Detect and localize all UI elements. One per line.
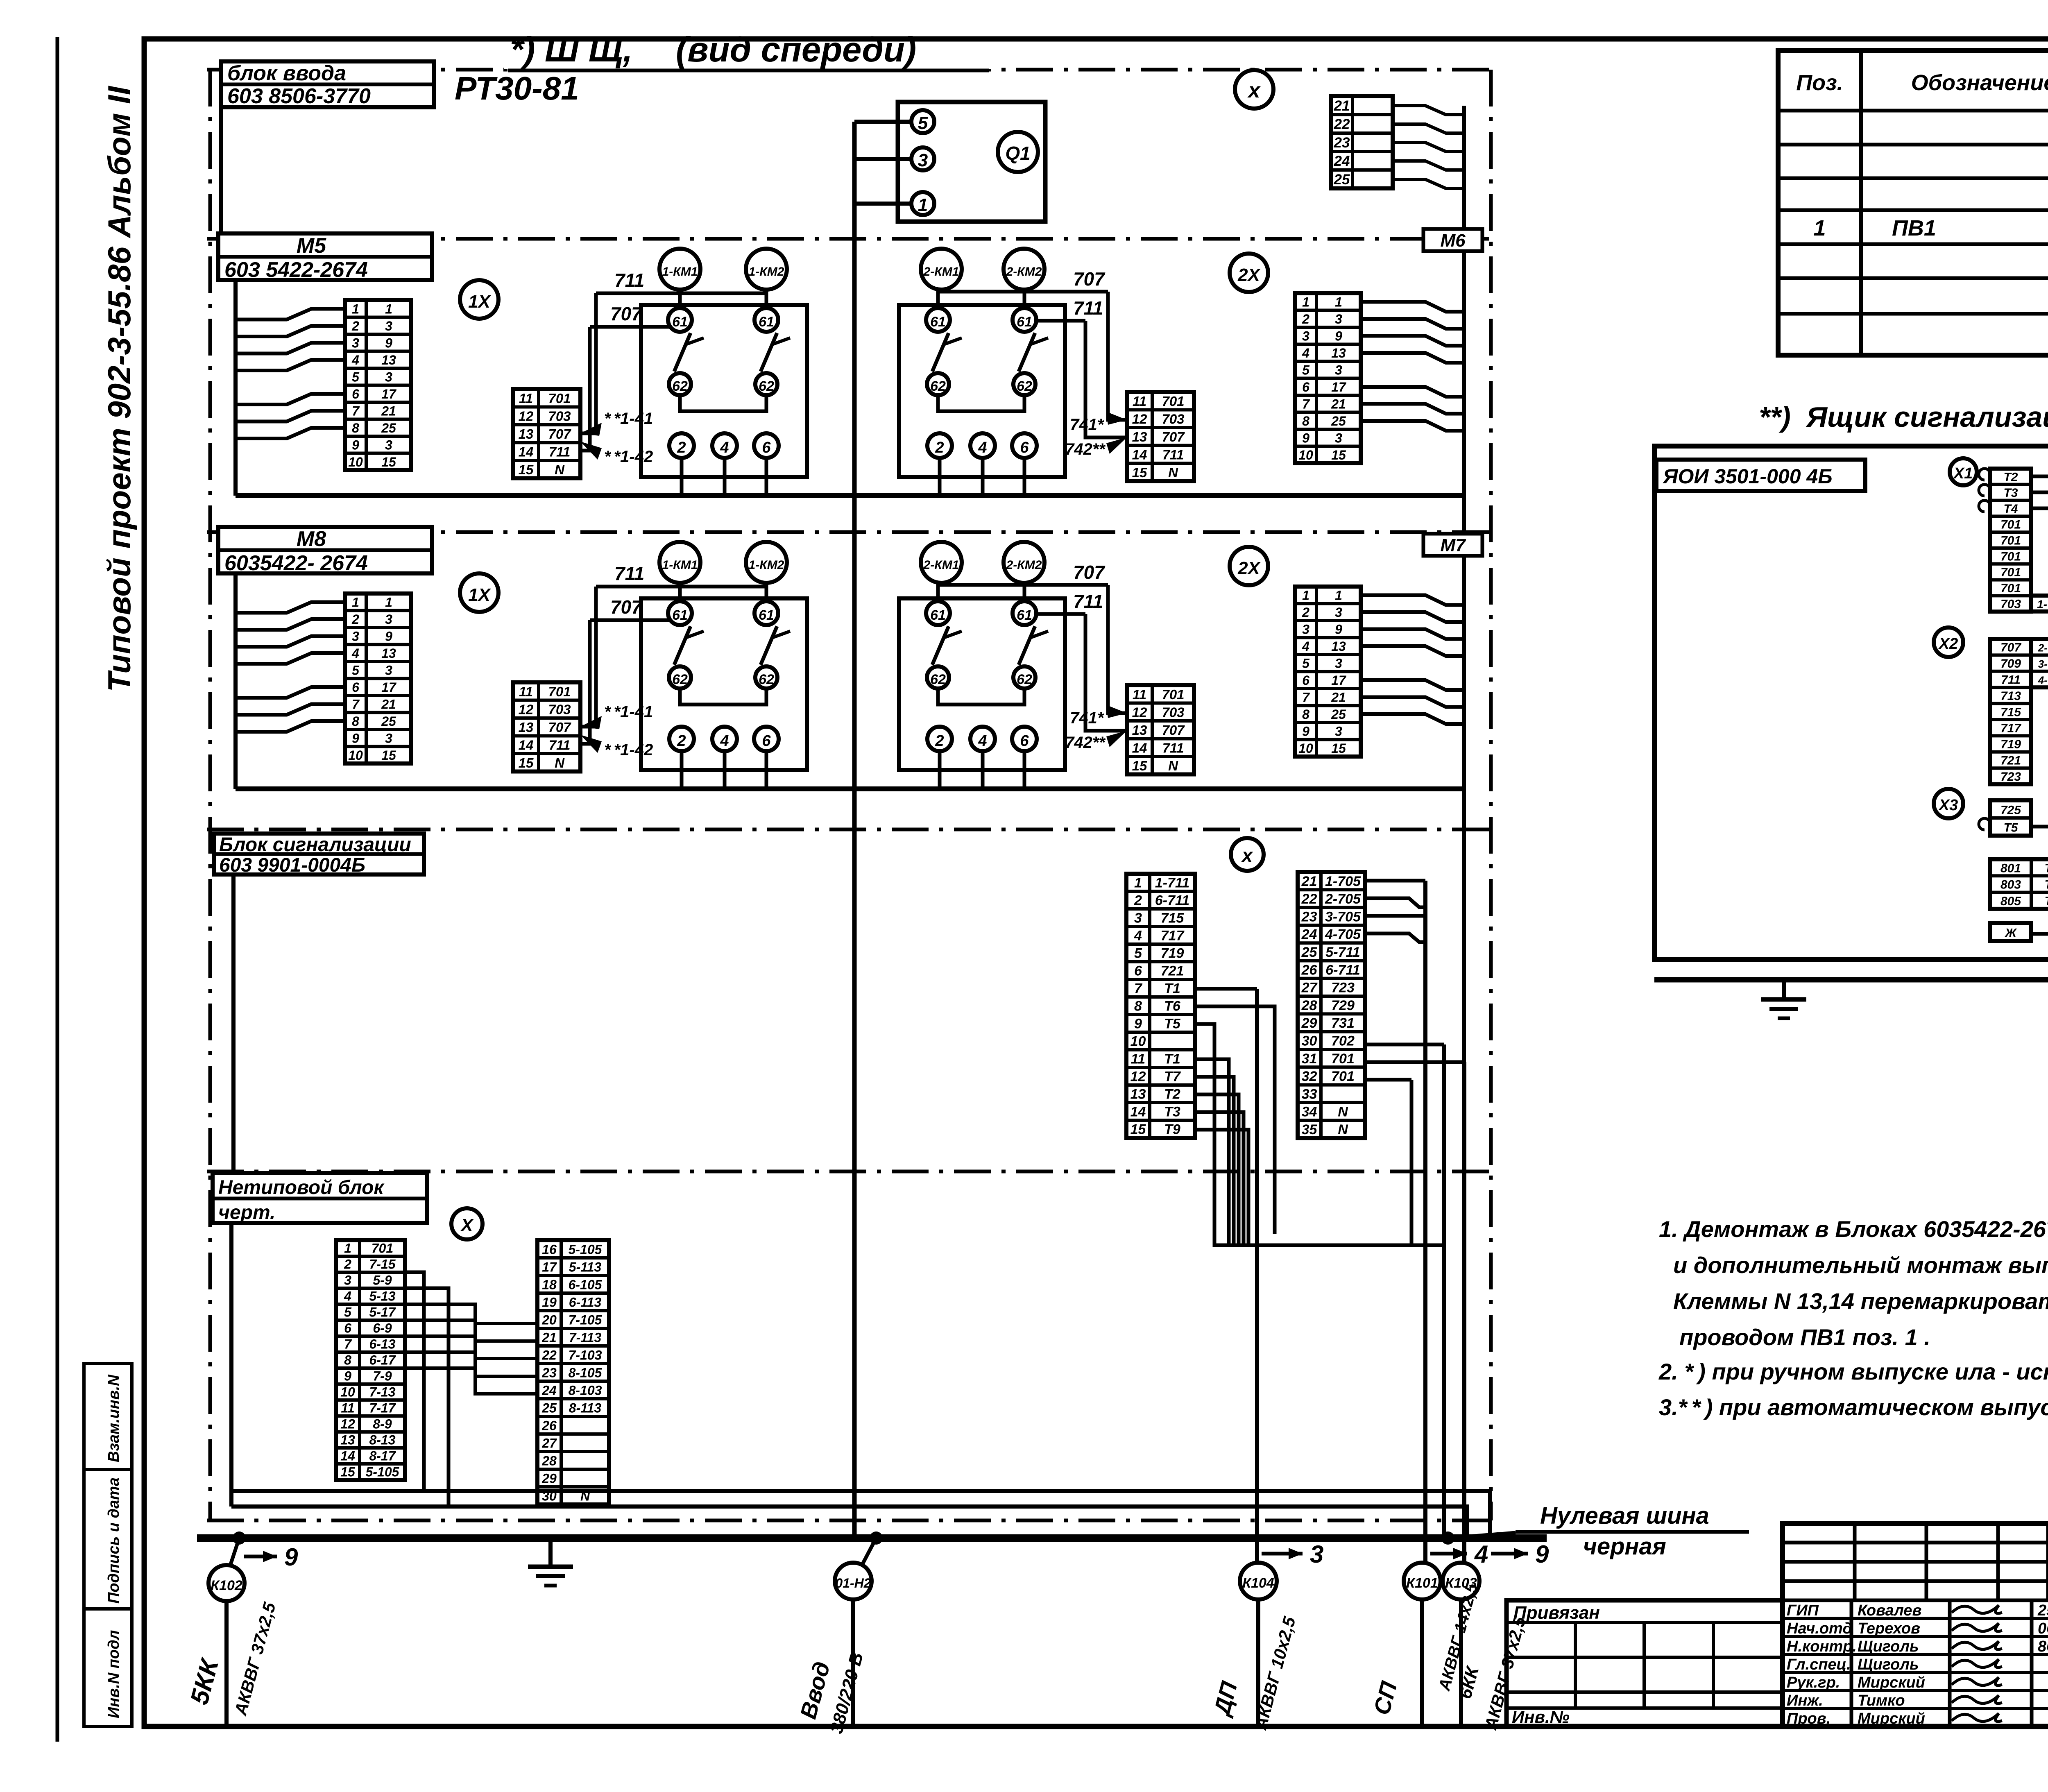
svg-text:62: 62 [930, 672, 946, 687]
terminal 6 2K М5 [1012, 433, 1037, 458]
svg-text:Т7: Т7 [2044, 895, 2048, 908]
svg-text:35: 35 [1302, 1122, 1318, 1137]
label box М5 603 5422-2674 [218, 233, 432, 280]
svg-text:18: 18 [542, 1278, 557, 1292]
svg-text:61: 61 [672, 607, 688, 623]
svg-text:Нач.отд: Нач.отд [1787, 1620, 1852, 1637]
svg-text:701: 701 [548, 391, 571, 406]
wire fan from table 21-25 [1393, 106, 1464, 115]
svg-text:29: 29 [541, 1471, 557, 1486]
svg-text:12: 12 [340, 1416, 355, 1431]
svg-text:1. Демонтаж в Блоках 603542: 1. Демонтаж в Блоках 6035422-2674, показ… [1659, 1216, 2048, 1242]
panel boundary dash-dot left [208, 70, 212, 1520]
svg-text:N: N [1168, 758, 1178, 773]
svg-text:717: 717 [2000, 722, 2021, 735]
svg-text:1X: 1X [468, 585, 491, 605]
svg-text:707: 707 [610, 596, 643, 618]
svg-text:23: 23 [1334, 135, 1350, 151]
svg-text:N: N [1168, 465, 1178, 480]
svg-text:x: x [1247, 79, 1261, 102]
svg-text:14: 14 [1132, 447, 1147, 462]
svg-text:17: 17 [1331, 673, 1347, 688]
svg-text:1: 1 [385, 595, 392, 609]
svg-text:14: 14 [519, 737, 534, 752]
svg-text:2: 2 [677, 732, 686, 750]
svg-text:3: 3 [385, 612, 392, 627]
svg-text:5: 5 [352, 369, 360, 384]
svg-text:701: 701 [1331, 1051, 1355, 1067]
svg-text:703: 703 [1162, 705, 1184, 720]
margin stamp box Инв.N подл [84, 1609, 132, 1726]
connector circle Х2 [1934, 628, 1963, 657]
svg-text:Х1: Х1 [1953, 465, 1973, 482]
svg-text:711: 711 [1162, 447, 1184, 462]
svg-text:9: 9 [1335, 328, 1342, 343]
svg-text:Т2: Т2 [2003, 470, 2018, 484]
contact 62 [669, 373, 691, 395]
svg-text:731: 731 [1331, 1015, 1355, 1031]
svg-text:25: 25 [541, 1401, 557, 1416]
terminal 6 1K М8 [754, 727, 779, 751]
svg-text:6-9: 6-9 [373, 1321, 392, 1335]
svg-text:12: 12 [519, 702, 534, 717]
svg-text:61: 61 [1017, 607, 1032, 623]
svg-text:7-17: 7-17 [369, 1400, 396, 1415]
svg-text:13: 13 [1331, 346, 1346, 360]
cable К101 drop wire [1420, 1599, 1424, 1726]
svg-text:6-105: 6-105 [569, 1278, 603, 1292]
wire riser to 13 1K М8 [580, 587, 596, 727]
svg-text:28: 28 [1301, 998, 1317, 1013]
svg-text:2-КМ2: 2-КМ2 [1006, 558, 1042, 572]
svg-text:8: 8 [352, 421, 359, 435]
svg-text:3: 3 [1335, 312, 1342, 326]
svg-text:701: 701 [2000, 534, 2021, 547]
svg-text:1: 1 [1134, 875, 1142, 891]
svg-text:719: 719 [1161, 946, 1184, 961]
svg-text:4: 4 [1134, 928, 1142, 944]
svg-text:6: 6 [762, 732, 771, 750]
svg-text:* *1-42: * *1-42 [604, 741, 653, 759]
svg-text:707: 707 [1073, 268, 1106, 290]
svg-text:717: 717 [1161, 928, 1185, 944]
svg-text:Т9: Т9 [1164, 1122, 1180, 1137]
tab М6 [1423, 229, 1482, 251]
sheet outer left edge line [56, 37, 59, 1742]
contact 61 [754, 601, 778, 625]
svg-text:1X: 1X [468, 292, 491, 312]
tab М7 [1423, 534, 1482, 556]
svg-text:9: 9 [1302, 724, 1309, 739]
svg-text:3: 3 [1310, 1541, 1323, 1568]
terminal 6 1K М5 [754, 433, 779, 458]
svg-text:711: 711 [1162, 740, 1184, 755]
contactor box 1K М5 [641, 305, 807, 477]
svg-text:Q1: Q1 [1005, 143, 1030, 164]
svg-text:702: 702 [1331, 1033, 1355, 1049]
svg-text:6: 6 [352, 387, 359, 401]
terminal 4 2K М8 [970, 727, 995, 751]
svg-text:2: 2 [1302, 605, 1309, 620]
svg-text:Х3: Х3 [1938, 797, 1958, 814]
svg-text:603 8506-3770: 603 8506-3770 [227, 84, 371, 108]
svg-text:5: 5 [344, 1305, 352, 1319]
svg-text:725: 725 [2000, 804, 2021, 817]
svg-text:61: 61 [930, 314, 946, 330]
wire 711 1K М8 [596, 585, 766, 589]
svg-text:7-15: 7-15 [369, 1257, 396, 1271]
contact 62 [927, 666, 949, 689]
svg-text:13: 13 [381, 353, 396, 367]
wire 707 2K М5 [938, 290, 1108, 294]
svg-text:7: 7 [344, 1337, 352, 1351]
svg-text:15: 15 [1331, 448, 1346, 462]
wire non-typical cross 4 [405, 1352, 537, 1376]
svg-text:13: 13 [1132, 723, 1147, 738]
svg-text:4: 4 [978, 439, 987, 456]
svg-text:Щиголь: Щиголь [1858, 1638, 1919, 1655]
svg-text:9: 9 [1535, 1541, 1549, 1568]
svg-text:24: 24 [1301, 927, 1317, 942]
svg-text:М6: М6 [1440, 231, 1466, 251]
svg-text:713: 713 [2000, 689, 2021, 703]
panel boundary dash-dot bottom [207, 1519, 1491, 1522]
block М5 bottom bus wire [236, 493, 1464, 498]
svg-text:2. * ) при ручном выпуске ил: 2. * ) при ручном выпуске ила - исключит… [1658, 1359, 2048, 1384]
svg-text:62: 62 [672, 672, 688, 687]
svg-text:8-17: 8-17 [369, 1448, 396, 1463]
wire 62 link 1K М8 [680, 689, 766, 705]
svg-text:М5: М5 [297, 234, 326, 258]
svg-text:701: 701 [1162, 687, 1184, 702]
svg-text:707: 707 [548, 720, 571, 735]
terminal 2 1K М8 [669, 727, 694, 751]
svg-text:6: 6 [352, 680, 359, 695]
svg-text:25: 25 [1334, 172, 1350, 188]
terminal 2 2K М5 [927, 433, 952, 458]
svg-text:711: 711 [549, 737, 571, 752]
svg-text:7: 7 [352, 697, 360, 711]
wire signal L7 to К104 riser [1195, 987, 1257, 991]
svg-text:25.: 25. [2037, 1602, 2048, 1619]
svg-text:21: 21 [381, 403, 396, 418]
svg-text:13: 13 [381, 646, 396, 661]
svg-text:62: 62 [759, 378, 774, 394]
svg-text:17: 17 [542, 1260, 557, 1275]
terminal table М8 small 2K [1127, 685, 1194, 775]
terminal 4 1K М5 [712, 433, 737, 458]
svg-text:(вид спереди): (вид спереди) [676, 30, 916, 69]
wire К101 riser [1423, 881, 1427, 1579]
svg-text:Ящик сигнализации ЯС (вид спе: Ящик сигнализации ЯС (вид спереди) [1806, 401, 2048, 433]
ЯС ground bus line [1654, 977, 2048, 983]
wire Х3 Т5 [2031, 827, 2048, 980]
contactor circle 2-КМ2 М8 [1004, 542, 1044, 583]
non-typical block left edge wire [229, 1223, 233, 1507]
cable fan М5 left [236, 309, 345, 319]
wire riser 3446 [1410, 1080, 1414, 1245]
svg-text:2-КМ1: 2-КМ1 [923, 265, 959, 279]
svg-text:741*: 741* [1070, 416, 1105, 434]
svg-text:801: 801 [2000, 861, 2021, 875]
svg-text:62: 62 [930, 378, 946, 394]
contact 62 [1013, 373, 1035, 395]
svg-text:3: 3 [1335, 724, 1342, 739]
svg-text:3: 3 [918, 150, 928, 170]
svg-text:7-105: 7-105 [569, 1313, 603, 1328]
terminal 5 of Q1 [911, 110, 934, 133]
svg-text:711: 711 [1073, 591, 1103, 612]
svg-text:Подпись и дата: Подпись и дата [105, 1477, 122, 1604]
svg-text:62: 62 [672, 378, 688, 394]
svg-text:25: 25 [381, 421, 396, 435]
wire non-typical bottom 2 [231, 1507, 1467, 1538]
wire КМ2 drop 2K М5 [1023, 290, 1026, 308]
wire non-typical jumper 2 [405, 1288, 449, 1507]
svg-text:7: 7 [1302, 396, 1310, 411]
svg-text:711: 711 [614, 270, 644, 291]
svg-text:3: 3 [385, 437, 392, 452]
terminal table М5 left [345, 300, 411, 470]
wire КМ2 drop 2K М8 [1023, 583, 1026, 601]
svg-text:29: 29 [1301, 1015, 1317, 1031]
connector circle X signal block [1231, 838, 1264, 871]
wire non-typical cross 1 [405, 1304, 537, 1323]
label box Блок сигнализации 603 9901-0004Б [214, 834, 424, 874]
junction dot right [1441, 1531, 1454, 1545]
svg-text:33: 33 [1302, 1086, 1317, 1102]
svg-text:86: 86 [2038, 1638, 2048, 1655]
title *) Ш Щ (вид спереди) [504, 44, 991, 69]
svg-text:701: 701 [1162, 394, 1184, 409]
svg-text:742**: 742** [1065, 440, 1106, 458]
svg-text:Взам.инв.N: Взам.инв.N [105, 1374, 122, 1462]
svg-text:Гл.спец.: Гл.спец. [1787, 1656, 1851, 1673]
block М8 bottom bus wire [236, 786, 1464, 791]
svg-text:9: 9 [1134, 1016, 1142, 1032]
contact blade [1019, 333, 1035, 372]
svg-text:6: 6 [1020, 732, 1029, 750]
svg-text:Поз.: Поз. [1796, 70, 1843, 95]
contactor box 1K М8 [641, 598, 807, 770]
block М8 left edge wire [233, 573, 238, 789]
svg-text:X: X [460, 1215, 474, 1235]
svg-text:3: 3 [1302, 328, 1309, 343]
svg-text:3: 3 [1335, 362, 1342, 377]
svg-text:Ковалев: Ковалев [1858, 1602, 1921, 1619]
svg-text:2X: 2X [1237, 558, 1261, 578]
contactor circle 2-КМ1 М8 [921, 542, 962, 583]
device circle Q1 [998, 132, 1038, 172]
wire 711 2K М8 [1036, 612, 1085, 616]
svg-text:21: 21 [1331, 396, 1346, 411]
svg-text:9: 9 [1302, 430, 1309, 445]
svg-text:ЯОИ 3501-000 4Б: ЯОИ 3501-000 4Б [1662, 465, 1833, 488]
svg-text:15: 15 [340, 1464, 356, 1479]
svg-text:К101: К101 [1406, 1575, 1438, 1591]
svg-text:Типовой проект 902-3-55.86: Типовой проект 902-3-55.86 Альбом II [101, 86, 137, 692]
connector circle Х3 [1934, 789, 1963, 818]
svg-text:16: 16 [542, 1242, 557, 1257]
svg-text:62: 62 [1017, 672, 1032, 687]
wire Х1 r3 [2031, 508, 2048, 980]
wire signal R32 [1365, 1078, 1411, 1082]
svg-text:711: 711 [2001, 673, 2021, 687]
svg-text:5: 5 [352, 663, 360, 677]
svg-text:Т6: Т6 [1164, 999, 1181, 1014]
svg-text:13: 13 [340, 1432, 355, 1447]
svg-text:11: 11 [341, 1400, 354, 1415]
terminal table X 21-25 [1331, 96, 1393, 188]
svg-text:8: 8 [1302, 414, 1309, 428]
svg-text:5: 5 [1302, 656, 1310, 671]
svg-text:715: 715 [1161, 911, 1185, 926]
wire drops 2-4-6 1K М5 [680, 458, 684, 496]
svg-text:711: 711 [1073, 297, 1103, 319]
terminal table signal left 1-15 [1126, 874, 1195, 1138]
svg-text:11: 11 [519, 684, 533, 699]
staff rows [1783, 1617, 2048, 1620]
wire block input left edge [219, 107, 223, 239]
svg-text:Тимко: Тимко [1858, 1692, 1905, 1709]
svg-text:06.: 06. [2038, 1620, 2048, 1637]
cable circle К104 [1240, 1563, 1277, 1599]
panel boundary dash-dot top [207, 68, 1491, 72]
cable fan М5 right [1361, 302, 1464, 312]
svg-text:711: 711 [549, 444, 571, 459]
svg-text:701: 701 [2000, 518, 2021, 532]
svg-text:803: 803 [2000, 878, 2021, 892]
svg-text:61: 61 [930, 607, 946, 623]
svg-text:Т2: Т2 [1164, 1087, 1180, 1102]
section divider dash-dot between M8 and signal block [207, 828, 1491, 831]
contact 61 [1013, 601, 1036, 625]
svg-text:13: 13 [519, 720, 534, 735]
svg-text:5-17: 5-17 [369, 1305, 396, 1319]
svg-text:701: 701 [372, 1241, 393, 1255]
svg-text:Рук.гр.: Рук.гр. [1787, 1674, 1840, 1691]
svg-text:3-705: 3-705 [1325, 909, 1361, 924]
svg-text:11: 11 [1133, 687, 1146, 702]
terminal table Х3b [1990, 859, 2048, 909]
svg-text:13: 13 [519, 426, 534, 442]
svg-text:701: 701 [1331, 1069, 1355, 1084]
svg-text:1: 1 [352, 595, 359, 609]
svg-text:7: 7 [1302, 690, 1310, 705]
svg-text:8-9: 8-9 [373, 1416, 392, 1431]
wire non-typical cross 5 [405, 1368, 537, 1394]
title block revision grid [1853, 1523, 1857, 1600]
wire signal L9 [1195, 1024, 1444, 1245]
svg-text:черная: черная [1583, 1533, 1666, 1560]
wire Ж row [2031, 934, 2048, 980]
svg-text:6035422- 2674: 6035422- 2674 [224, 551, 368, 575]
svg-text:10: 10 [1298, 741, 1313, 756]
wire КМ1 drop 2K М5 [936, 290, 940, 308]
svg-text:14: 14 [519, 444, 534, 459]
svg-text:Ж: Ж [2004, 926, 2017, 940]
svg-text:М7: М7 [1440, 535, 1466, 555]
terminal table Х2 [1990, 639, 2031, 784]
svg-text:5-113: 5-113 [569, 1260, 602, 1275]
contactor circle 1-КМ2 М8 [746, 542, 787, 583]
ЯС enclosure box [1654, 446, 2048, 959]
contactor circle 1-КМ1 М5 [659, 249, 700, 290]
svg-text:701: 701 [2000, 582, 2021, 595]
svg-text:Т5: Т5 [2003, 821, 2018, 835]
svg-text:701: 701 [2000, 566, 2021, 579]
signal block left edge wire [231, 874, 236, 1171]
svg-text:Т1: Т1 [1164, 981, 1180, 997]
section divider dash-dot between input block and M5 [207, 237, 1491, 241]
contact blade [1019, 626, 1035, 665]
cable К104 drop wire [1256, 1599, 1260, 1726]
svg-text:707: 707 [2000, 641, 2021, 655]
attachment box Привязан [1507, 1600, 1783, 1726]
svg-text:2: 2 [935, 439, 944, 456]
svg-text:62: 62 [1017, 378, 1032, 394]
wire drops 2-4-6 2K М8 [938, 751, 942, 789]
svg-text:15: 15 [1130, 1122, 1146, 1137]
svg-text:3: 3 [385, 663, 392, 677]
contact 61 [668, 601, 692, 625]
svg-text:Т1: Т1 [2044, 861, 2048, 875]
svg-text:14: 14 [340, 1448, 355, 1463]
svg-text:* *1-41: * *1-41 [604, 703, 653, 721]
svg-text:x: x [1241, 845, 1253, 866]
svg-text:Пров.: Пров. [1787, 1710, 1831, 1727]
contact 61 [668, 308, 692, 332]
svg-text:4: 4 [1474, 1541, 1488, 1568]
title block outer box [1783, 1523, 2048, 1726]
svg-text:15: 15 [381, 455, 396, 469]
wire riser to 13 1K М5 [580, 293, 596, 433]
cable К102 drop wire [224, 1601, 229, 1726]
wire from terminal 3 [854, 157, 911, 161]
svg-text:6-17: 6-17 [369, 1352, 396, 1367]
svg-text:34: 34 [1302, 1104, 1317, 1120]
cable circle 01-Н2 [863, 1538, 876, 1564]
svg-text:14: 14 [1132, 740, 1147, 755]
connector circle 2X М8 [1230, 547, 1268, 585]
svg-text:1: 1 [1335, 588, 1342, 603]
svg-text:3: 3 [1335, 656, 1342, 671]
svg-text:6: 6 [344, 1321, 351, 1335]
svg-text:2-705: 2-705 [2038, 642, 2048, 654]
svg-text:17: 17 [1331, 380, 1347, 394]
svg-text:2: 2 [1302, 312, 1309, 326]
wire riser mid [1442, 1044, 1446, 1538]
svg-text:7-103: 7-103 [569, 1348, 602, 1363]
wire drops 2-4-6 2K М5 [938, 458, 942, 496]
wire drops 2-4-6 1K М8 [680, 751, 684, 789]
svg-text:3: 3 [385, 731, 392, 745]
svg-text:9: 9 [284, 1543, 298, 1571]
svg-text:25: 25 [1331, 414, 1346, 428]
svg-text:ПВ1: ПВ1 [1892, 216, 1936, 240]
svg-text:5: 5 [1134, 946, 1142, 961]
section divider dash-dot between M5 and M8 [207, 530, 1491, 534]
junction dot input [870, 1531, 883, 1545]
svg-text:26: 26 [1301, 962, 1318, 978]
svg-text:2: 2 [935, 732, 944, 750]
svg-text:4: 4 [1302, 346, 1309, 360]
svg-text:и дополнительный монтаж выпо: и дополнительный монтаж выполняется зака… [1673, 1252, 2048, 1278]
svg-text:* *1-41: * *1-41 [604, 410, 653, 428]
wire Х1 r1 to К104 [2031, 476, 2048, 1026]
svg-text:Т6: Т6 [2044, 878, 2048, 892]
svg-text:3: 3 [1335, 430, 1342, 445]
